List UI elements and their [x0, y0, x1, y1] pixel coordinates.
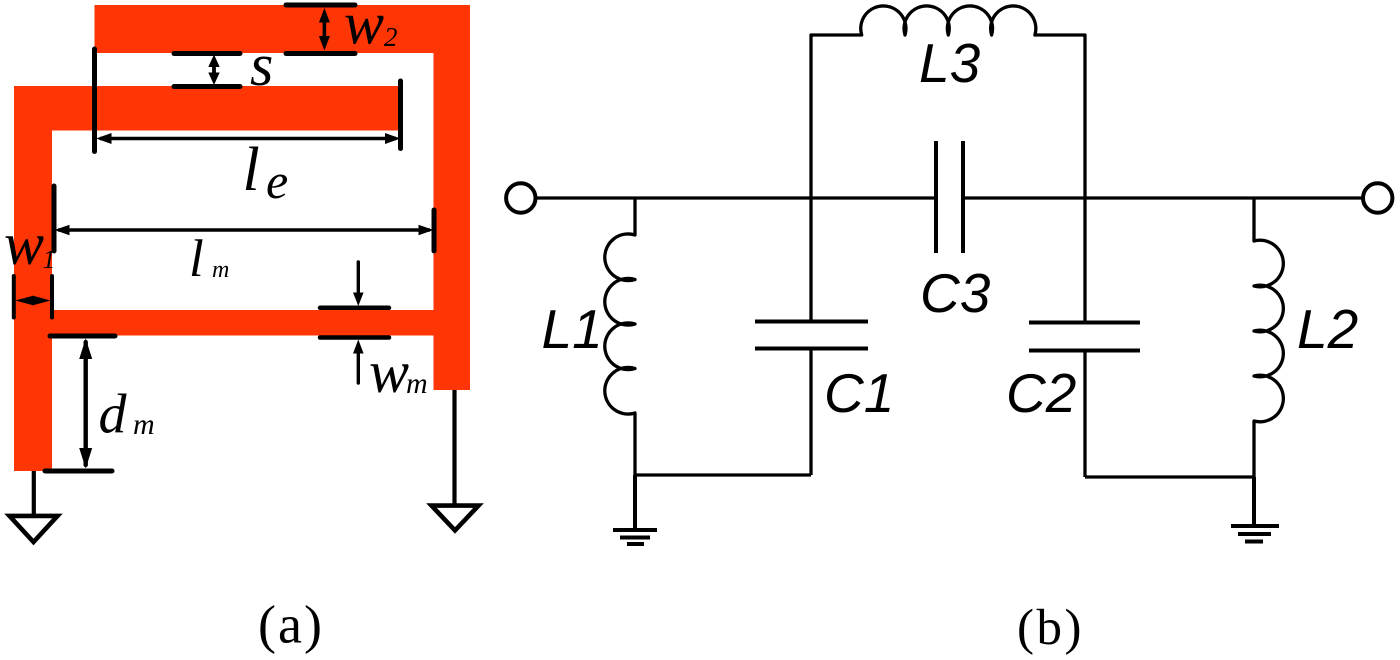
main wire left segment	[536, 196, 937, 199]
svg-text:w: w	[4, 211, 44, 277]
microstrip bottom bar	[14, 310, 470, 336]
svg-text:w: w	[369, 339, 409, 405]
terminal circle left	[506, 183, 535, 212]
microstrip top bar	[95, 5, 471, 53]
terminal circle right	[1363, 183, 1392, 212]
svg-text:L2: L2	[1297, 298, 1358, 360]
dimension s	[174, 54, 240, 87]
ground right (panel b)	[1231, 477, 1279, 542]
svg-text:s: s	[250, 32, 273, 98]
inductor L3 branch	[811, 6, 1085, 198]
svg-text:L3: L3	[919, 32, 981, 94]
dimension dm	[45, 336, 115, 471]
svg-text:C1: C1	[824, 362, 894, 424]
svg-text:l: l	[243, 136, 260, 204]
ground right (panel a)	[432, 390, 479, 530]
svg-text:(b): (b)	[1017, 600, 1084, 656]
svg-text:w: w	[344, 0, 384, 57]
ground left (panel b)	[613, 475, 657, 544]
capacitor C1	[755, 198, 868, 475]
svg-text:C3: C3	[920, 262, 991, 324]
capacitor C3	[936, 141, 963, 253]
svg-text:m: m	[406, 367, 428, 400]
inductor L2	[1254, 198, 1283, 477]
microstrip left vertical bar	[14, 86, 52, 471]
svg-text:C2: C2	[1006, 362, 1076, 424]
bottom wire right	[1085, 475, 1254, 478]
dimension le	[95, 49, 401, 152]
svg-text:1: 1	[43, 245, 56, 274]
svg-text:e: e	[266, 153, 288, 209]
circuit wires and components (panel b)	[506, 6, 1392, 544]
svg-text:(a): (a)	[258, 595, 324, 655]
main wire right segment	[963, 196, 1363, 199]
svg-text:2: 2	[384, 22, 398, 52]
dimension wm	[320, 262, 389, 383]
capacitor C2	[1029, 198, 1140, 477]
svg-text:m: m	[212, 257, 229, 283]
inductor L1	[605, 198, 635, 475]
bottom wire left	[635, 473, 811, 476]
dimension w1	[14, 276, 52, 318]
microstrip coupled bar (le strip)	[14, 86, 400, 131]
svg-text:d: d	[99, 384, 128, 446]
dimension lm	[54, 186, 434, 251]
svg-text:l: l	[189, 230, 204, 288]
ground left (panel a)	[10, 471, 58, 542]
dimension w2	[286, 5, 355, 54]
microstrip right vertical bar	[434, 5, 471, 390]
svg-text:m: m	[133, 408, 155, 441]
svg-text:L1: L1	[542, 298, 603, 360]
